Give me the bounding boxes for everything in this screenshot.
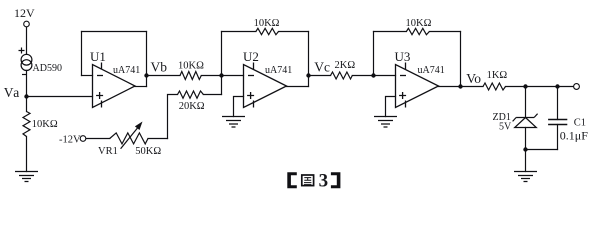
resistor 10KOhm U2 feedback	[256, 28, 279, 34]
svg-text:C1: C1	[574, 118, 586, 129]
svg-text:uA741: uA741	[113, 65, 140, 76]
svg-text:10KΩ: 10KΩ	[178, 61, 204, 72]
wire U2 noninverting to ground	[234, 97, 244, 117]
wire U3 feedback top	[374, 31, 461, 33]
potentiometer VR1 arrow	[121, 128, 138, 149]
wire U2 feedback top	[222, 31, 309, 33]
wire cap bottom	[557, 125, 559, 150]
wire VR1 leads	[86, 138, 168, 140]
plus sign above AD590	[19, 48, 25, 54]
wire 20K right lead	[203, 94, 221, 96]
svg-text:Va: Va	[4, 85, 21, 100]
resistor 10KOhm vertical (Va to ground)	[23, 112, 30, 137]
wire U3 feedback left vertical	[373, 32, 375, 76]
wire bottom link zener-cap	[526, 149, 558, 151]
svg-text:2KΩ: 2KΩ	[335, 60, 356, 71]
svg-text:Vo: Vo	[466, 71, 481, 86]
svg-text:5V: 5V	[499, 122, 512, 133]
wire U3 inverting input	[374, 75, 396, 77]
ground (right, below ZD1)	[514, 172, 537, 182]
wire U3 noninverting to ground	[386, 97, 396, 117]
node Vc junction dot	[306, 73, 310, 77]
wire AD590 to Va node	[26, 70, 28, 96]
node Vo junction dot	[458, 84, 462, 88]
potentiometer VR1 50KOhm zigzag	[110, 133, 148, 144]
wire 10K right lead to U2 node	[201, 75, 221, 77]
wire 12V stem	[26, 27, 28, 55]
node U3 inverting input dot	[371, 73, 375, 77]
node cap top dot	[555, 84, 559, 88]
ground (U2)	[222, 117, 245, 128]
wire U1 inverting input	[82, 75, 93, 77]
resistor 1KOhm	[483, 83, 506, 90]
zener diode ZD1	[513, 114, 538, 128]
wire Vb bus	[147, 75, 181, 77]
svg-text:U3: U3	[395, 49, 411, 64]
wire U1 feedback top	[82, 31, 147, 33]
resistor 2KOhm	[331, 72, 353, 79]
svg-text:3: 3	[319, 171, 329, 192]
ground (left, below 10K)	[15, 172, 38, 182]
wire Va bus to U1 + input	[27, 96, 93, 98]
node Vb junction dot	[144, 73, 148, 77]
wire U2 feedback right vertical	[308, 32, 310, 87]
wire zener branch top	[525, 87, 527, 118]
caption bracket right	[331, 172, 341, 188]
svg-text:Vb: Vb	[151, 60, 168, 75]
resistor 10KOhm U3 feedback	[406, 28, 429, 34]
wire Va node down to R 10K	[26, 97, 28, 112]
node zener bottom dot	[523, 147, 527, 151]
wire Vc bus	[309, 75, 374, 77]
op-amp U1	[93, 63, 136, 108]
ground (U3)	[374, 117, 397, 128]
wire U2 feedback left vertical	[221, 32, 223, 76]
svg-text:10KΩ: 10KΩ	[406, 18, 432, 29]
terminal output	[574, 84, 580, 90]
svg-text:12V: 12V	[14, 6, 35, 20]
svg-text:U2: U2	[243, 49, 259, 64]
wire 20K vertical to node	[221, 76, 223, 95]
wire U2 output	[287, 86, 309, 88]
svg-text:AD590: AD590	[33, 63, 62, 74]
op-amp U3	[396, 63, 439, 108]
wire U3 feedback right vertical	[460, 32, 462, 87]
svg-text:U1: U1	[90, 49, 106, 64]
wire U1 output	[135, 86, 147, 88]
wire U2 inverting input	[222, 75, 244, 77]
wire cap top	[557, 87, 559, 120]
svg-text:50KΩ: 50KΩ	[135, 146, 161, 157]
svg-text:uA741: uA741	[265, 65, 292, 76]
wire zener branch bottom to ground	[525, 128, 527, 172]
node Va junction dot	[24, 94, 28, 98]
op-amp U2	[244, 63, 287, 108]
svg-text:uA741: uA741	[418, 65, 445, 76]
svg-text:20KΩ: 20KΩ	[179, 101, 205, 112]
wire 20K left lead	[168, 95, 178, 139]
node zener top dot	[523, 84, 527, 88]
terminal -12V	[80, 136, 86, 142]
minus sign below AD590	[22, 74, 27, 76]
wire R 10K to ground	[26, 137, 28, 172]
caption chinese character Tu (drawn)	[302, 175, 314, 186]
svg-text:Vc: Vc	[314, 60, 330, 75]
AD590 current source symbol	[21, 54, 32, 70]
svg-text:0.1μF: 0.1μF	[560, 128, 588, 142]
wire U1 feedback right vertical	[146, 32, 148, 87]
resistor 10KOhm Vb-U2	[180, 72, 201, 80]
capacitor C1 plates	[548, 120, 567, 125]
wire U3 output / Vo bus	[439, 86, 484, 88]
caption bracket left	[287, 172, 297, 188]
wire after 1K to output terminal	[506, 86, 574, 88]
svg-text:1KΩ: 1KΩ	[487, 70, 508, 81]
svg-text:10KΩ: 10KΩ	[32, 119, 58, 130]
svg-text:10KΩ: 10KΩ	[254, 18, 280, 29]
wire U1 feedback left vertical	[81, 32, 83, 76]
svg-text:-12V: -12V	[59, 135, 81, 146]
node U2 inverting input dot	[219, 73, 223, 77]
resistor 20KOhm	[178, 91, 204, 98]
svg-text:VR1: VR1	[98, 146, 118, 157]
terminal 12V	[24, 21, 30, 27]
